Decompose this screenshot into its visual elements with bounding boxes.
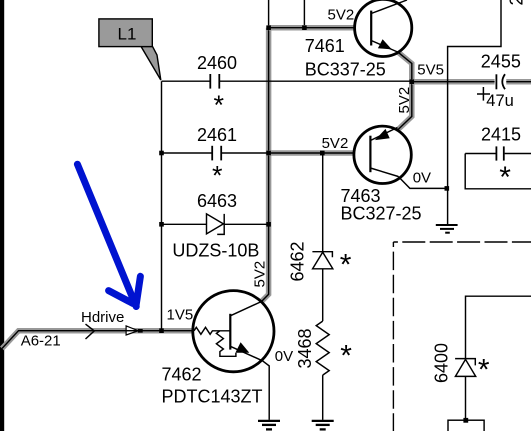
wire: 2460 row left segment	[162, 80, 211, 82]
svg-text:0V: 0V	[275, 348, 293, 365]
svg-text:7462: 7462	[162, 365, 202, 385]
svg-text:6463: 6463	[197, 191, 237, 211]
resistor R3468	[316, 321, 329, 375]
wire: D6462 to R3468	[322, 269, 324, 321]
wire: 6463 row right segment	[224, 223, 268, 225]
wire: D6400 anode down to box	[465, 376, 467, 420]
svg-text:BC337-25: BC337-25	[305, 60, 386, 80]
wire: C2415 top right segment to edge	[505, 153, 531, 155]
wire: 7462 emitter down to ground	[263, 361, 270, 420]
transistor Q7461 (NPN BC337-25)	[355, 0, 412, 57]
wire: 2461 row left segment	[162, 152, 212, 154]
svg-text:BC327-25: BC327-25	[341, 204, 422, 224]
wire: C2415 loop down and right to edge	[465, 154, 531, 189]
callout label L1 with pointer	[99, 19, 161, 80]
wire: 6400 branch from right edge down to diode	[466, 296, 531, 358]
wire: C2415 top left segment	[465, 153, 495, 155]
capacitor C2415	[496, 146, 503, 160]
svg-text:6462: 6462	[288, 241, 308, 281]
wire: 7461 emitter bus down to 5V5 node	[398, 52, 412, 82]
svg-text:5V2: 5V2	[328, 7, 355, 24]
wire: 2460 row right segment to 5V5 node	[220, 80, 412, 82]
capacitor C2455 (polarized 47u)	[496, 74, 505, 89]
junction at 5V2 bus top corner	[266, 25, 271, 30]
wire: second vertical stub from top edge to 7461 base bus	[303, 0, 305, 28]
capacitor C2461	[212, 146, 221, 161]
plus sign for C2455 polarity	[477, 87, 490, 101]
wire: R3468 to ground	[322, 375, 324, 420]
svg-text:PDTC143ZT: PDTC143ZT	[162, 387, 263, 407]
svg-text:5V2: 5V2	[322, 135, 349, 152]
svg-text:UDZS-10B: UDZS-10B	[172, 240, 259, 260]
wire: 5V2 bus from 5V5 node down to 7463 emitter	[398, 82, 412, 130]
svg-text:7461: 7461	[305, 36, 345, 56]
svg-text:2: 2	[507, 0, 527, 6]
ground symbol below 7462	[258, 421, 280, 430]
svg-text:*: *	[340, 340, 352, 373]
wire: 6463 row left segment	[162, 223, 207, 225]
wire: 5V2 bus vertical run down to 7462 collector	[261, 28, 268, 302]
junction on 7461 base bus	[302, 25, 307, 30]
junction 6462 tap on 5V2	[320, 151, 325, 156]
wire: vertical stub from top edge down to 5V2 bus corner	[268, 0, 270, 28]
svg-text:*: *	[478, 354, 490, 387]
wire: left column vertical (L1 node down to Hdrive)	[161, 81, 163, 331]
junction 6463 row left	[159, 222, 164, 227]
svg-text:2461: 2461	[197, 125, 237, 145]
svg-text:5V2: 5V2	[396, 87, 413, 114]
svg-text:0V: 0V	[413, 170, 431, 187]
svg-text:*: *	[340, 249, 352, 282]
svg-text:2415: 2415	[481, 124, 521, 144]
emitter line of 7462 with arrow	[230, 342, 262, 361]
wire: 7461 base bus segment	[269, 25, 355, 31]
ground symbol at 0V node	[436, 225, 458, 233]
svg-text:2455: 2455	[481, 51, 521, 71]
junction on Hdrive wire	[159, 328, 164, 333]
schematic sheet border bar (left edge)	[0, 0, 4, 431]
junction at 0V node	[445, 186, 450, 191]
chevron flow arrow on Hdrive wire	[86, 324, 95, 339]
ground symbol below R3468	[312, 421, 334, 430]
svg-text:Hdrive: Hdrive	[81, 309, 124, 326]
wire: 2461 row right segment	[221, 152, 269, 154]
wire: 7463 base bus segment (5V2)	[269, 150, 355, 156]
transistor Q7462 (digital NPN PDTC143ZT)	[193, 291, 274, 372]
junction at 5V5 node	[410, 79, 415, 84]
capacitor C2460	[210, 74, 219, 89]
svg-text:2460: 2460	[197, 53, 237, 73]
resistor R2 inside 7462	[216, 331, 236, 357]
svg-text:3468: 3468	[295, 328, 315, 368]
junction 6463 row at bus	[266, 222, 271, 227]
svg-text:6400: 6400	[432, 343, 452, 383]
base bar of 7462	[229, 314, 231, 350]
dashed module outline box	[393, 242, 531, 431]
zener diode D6462	[312, 252, 332, 269]
collector line of 7462	[230, 302, 261, 316]
resistor R1 inside 7462	[194, 327, 230, 334]
zener diode D6400	[455, 359, 476, 377]
svg-text:A6-21: A6-21	[21, 333, 61, 350]
junction 2461 row left	[159, 151, 164, 156]
svg-text:*: *	[212, 161, 223, 191]
svg-text:1V5: 1V5	[167, 306, 194, 323]
svg-text:5V2: 5V2	[252, 261, 269, 288]
wire: A6-21 / Hdrive input bus to 7462 base	[2, 331, 194, 349]
component box at bottom edge	[448, 420, 484, 431]
wire: elbow from top edge down to 0V node and ground	[448, 0, 501, 224]
transistor Q7463 (PNP BC327-25)	[354, 126, 411, 183]
zener diode D6463	[207, 214, 225, 235]
blue annotation arrow	[77, 164, 140, 306]
svg-text:*: *	[214, 90, 225, 120]
wire: 5V5 rail right of C2455	[506, 79, 531, 85]
svg-text:L1: L1	[118, 24, 137, 43]
junction on bottom box	[463, 418, 468, 423]
svg-text:5V5: 5V5	[417, 62, 444, 79]
junction 2461 row at bus	[266, 151, 271, 156]
svg-text:*: *	[499, 161, 511, 194]
wire: 5V2 node down to D6462 anode	[322, 153, 324, 252]
wire: 7463 collector to 0V node	[398, 177, 447, 189]
svg-text:47u: 47u	[486, 92, 514, 110]
signal buffer triangle on Hdrive wire	[126, 326, 143, 335]
wire: 5V5 rail to right edge (left of C2455)	[412, 79, 495, 85]
